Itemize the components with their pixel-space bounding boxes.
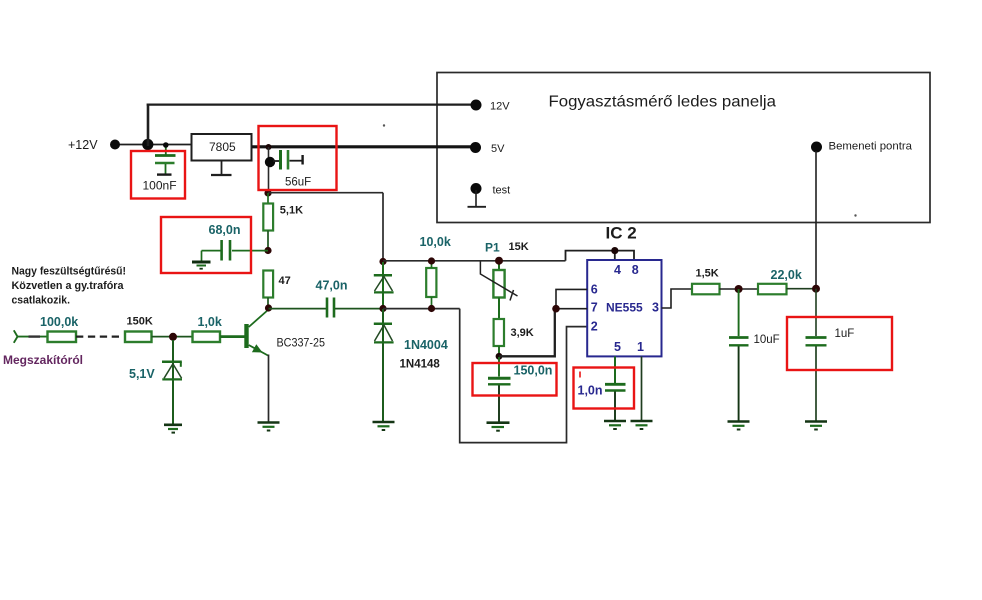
ground zener — [164, 425, 182, 433]
ground 68n — [192, 262, 211, 269]
svg-text:5: 5 — [614, 340, 621, 354]
panel box Fogyasztasmero — [437, 73, 930, 223]
node test terminal — [471, 183, 482, 194]
wire trigger routing down-left — [460, 309, 587, 443]
wire 22,0k to output node — [787, 288, 817, 290]
svg-text:4: 4 — [614, 263, 621, 277]
capacitor C 150,0n — [488, 357, 552, 422]
wire emitter down — [268, 355, 270, 422]
svg-text:1N4004: 1N4004 — [404, 338, 448, 352]
wire thick riser from junction up — [147, 104, 150, 147]
svg-text:56uF: 56uF — [285, 176, 311, 188]
wire 12V rail to panel — [147, 103, 471, 105]
wire 100nF tap lead — [165, 146, 167, 155]
node timing — [496, 353, 503, 360]
wire diode column riser — [382, 193, 384, 262]
svg-text:150K: 150K — [127, 315, 153, 327]
diode zener 5,1V — [129, 340, 182, 424]
wire input to R 100,0k — [17, 336, 48, 338]
svg-text:BC337-25: BC337-25 — [277, 338, 326, 350]
wire pin3 output link — [662, 289, 693, 308]
resistor R 10,0k — [420, 235, 451, 309]
svg-text:6: 6 — [591, 282, 598, 296]
svg-text:8: 8 — [632, 263, 639, 277]
wire 5V rail thick from 7805 to panel — [252, 145, 471, 148]
capacitor C 1,0n — [578, 384, 626, 420]
svg-text:Bemeneti pontra: Bemeneti pontra — [829, 141, 913, 153]
capacitor C 68,0n — [202, 223, 269, 261]
note text block — [12, 266, 127, 307]
wire from Bemeneti pontra down — [815, 151, 817, 289]
resistor R 100,0k — [40, 315, 78, 342]
marker box 100nF — [131, 151, 185, 199]
ground diode stack — [373, 422, 395, 430]
svg-text:test: test — [493, 184, 511, 196]
wire +12V feed to junction and 7805 input — [115, 144, 192, 146]
node 10uF tap — [735, 285, 743, 293]
node pin4 supply — [611, 247, 618, 254]
marker box 1uF — [787, 317, 892, 370]
svg-text:3,9K: 3,9K — [511, 327, 534, 339]
svg-text:2: 2 — [591, 320, 598, 334]
node 12V terminal — [471, 100, 482, 111]
resistor R 5,1K — [263, 193, 303, 251]
svg-text:1,5K: 1,5K — [696, 268, 719, 280]
svg-text:Közvetlen a gy.trafóra: Közvetlen a gy.trafóra — [12, 280, 125, 292]
resistor R 150K — [125, 315, 153, 342]
ground emitter — [258, 423, 280, 431]
svg-text:Fogyasztásmérő ledes panelja: Fogyasztásmérő ledes panelja — [549, 94, 777, 111]
wire pin6 link — [556, 289, 587, 308]
node base divider junction — [169, 333, 177, 341]
capacitor C 56uF — [265, 150, 311, 188]
capacitor C 47,0n — [269, 278, 384, 317]
input connector arc — [14, 330, 18, 343]
svg-text:100,0k: 100,0k — [40, 315, 78, 329]
resistor R 1,5K — [692, 268, 720, 295]
svg-text:5,1V: 5,1V — [129, 367, 155, 381]
ground 10uF — [728, 422, 750, 430]
wire mid rail y308 — [383, 308, 460, 310]
svg-text:P1: P1 — [485, 240, 500, 254]
svg-text:1,0k: 1,0k — [198, 315, 222, 329]
wire pin1 lead — [641, 356, 643, 420]
svg-text:12V: 12V — [490, 101, 510, 113]
resistor R 22,0k — [758, 268, 802, 294]
svg-text:22,0k: 22,0k — [771, 268, 802, 282]
wire pin7 link — [556, 308, 587, 310]
node 5V out junction — [266, 144, 272, 150]
svg-text:1uF: 1uF — [835, 328, 855, 340]
regulator U 7805 — [192, 134, 252, 161]
ground 1,0n — [604, 421, 626, 429]
resistor R 3,9K — [494, 319, 534, 357]
svg-text:IC 2: IC 2 — [606, 223, 637, 242]
node output — [812, 285, 820, 293]
svg-text:47,0n: 47,0n — [316, 278, 348, 292]
potentiometer P1 15K — [480, 240, 528, 319]
capacitor C 1uF — [806, 289, 855, 421]
ground 150n — [487, 423, 510, 431]
svg-text:150,0n: 150,0n — [514, 364, 553, 378]
diode D 1N4148 — [374, 309, 441, 421]
node Bemeneti pontra terminal — [811, 142, 822, 153]
svg-text:10uF: 10uF — [754, 334, 780, 346]
wire pin5 lead — [614, 356, 616, 383]
wire 56uF node drop — [268, 147, 270, 193]
transistor Q BC337-25 — [244, 310, 325, 356]
node +12V terminal dot — [110, 140, 120, 150]
svg-text:1N4148: 1N4148 — [400, 359, 441, 371]
ground test stub — [468, 190, 487, 207]
capacitor C 100nF — [143, 156, 177, 193]
wire node to diode column — [268, 192, 383, 194]
node P1 top — [495, 257, 503, 265]
speck artifacts — [383, 124, 385, 126]
svg-text:7805: 7805 — [209, 140, 236, 154]
svg-text:Nagy feszültségtűrésű!: Nagy feszültségtűrésű! — [12, 266, 127, 278]
svg-text:68,0n: 68,0n — [209, 223, 241, 237]
marker tick 1,0n — [579, 372, 581, 378]
node pins 6-7 junction — [552, 305, 560, 313]
node collector — [265, 304, 272, 311]
marker box 68,0n — [161, 217, 251, 273]
node 100nF tap — [163, 142, 169, 148]
svg-text:47: 47 — [279, 275, 291, 287]
marker box 56uF — [259, 126, 337, 190]
wire 555 supply riser and top link — [566, 251, 635, 261]
svg-text:100nF: 100nF — [143, 178, 177, 192]
svg-text:15K: 15K — [509, 241, 529, 253]
svg-text:10,0k: 10,0k — [420, 235, 451, 249]
node 10k bottom — [428, 305, 435, 312]
svg-text:+12V: +12V — [68, 138, 98, 152]
ground 7805 tab — [211, 161, 232, 176]
svg-text:1: 1 — [637, 340, 644, 354]
node 5V terminal — [470, 142, 481, 153]
wire 1,5K to 22,0k — [720, 288, 759, 290]
ground 1uF — [805, 422, 827, 430]
marker box 1,0n — [574, 368, 635, 409]
svg-text:NE555: NE555 — [606, 301, 643, 315]
diode D 1N4004 — [374, 262, 448, 352]
op-amp U IC2 NE555 — [587, 260, 661, 356]
node diode mid — [379, 305, 386, 312]
node 10k top — [428, 257, 435, 264]
node 68n tap — [264, 247, 271, 254]
node diode top — [379, 258, 386, 265]
svg-text:Megszakítóról: Megszakítóról — [3, 355, 83, 367]
svg-text:7: 7 — [591, 301, 598, 315]
node 5V sub-rail junction — [264, 189, 271, 196]
svg-text:5,1K: 5,1K — [280, 204, 303, 216]
svg-text:csatlakozik.: csatlakozik. — [12, 295, 71, 307]
wire timing node to pins 6-7 riser — [499, 309, 555, 357]
svg-text:1,0n: 1,0n — [578, 384, 603, 398]
svg-text:3: 3 — [652, 301, 659, 315]
wire 1,0k to base — [220, 335, 245, 338]
svg-text:5V: 5V — [491, 143, 505, 155]
wire dashed link — [76, 335, 119, 337]
resistor R 1,0k — [193, 315, 222, 342]
wire 150K to junction — [152, 336, 193, 338]
ground pin1 — [631, 421, 653, 429]
wire pin4 stub — [614, 251, 616, 260]
resistor R 47 — [263, 271, 290, 309]
marker box 150,0n — [473, 363, 557, 396]
wire 5V rail y260 — [383, 260, 566, 262]
capacitor C 10uF — [729, 289, 780, 421]
node main +12V junction — [142, 139, 153, 150]
